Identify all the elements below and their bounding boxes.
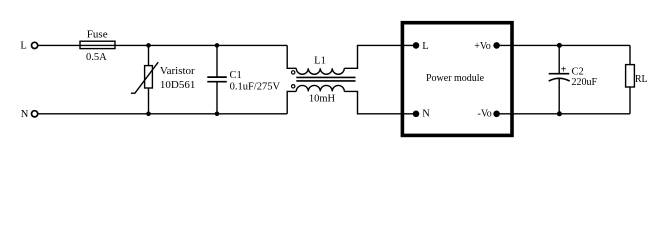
svg-text:0.5A: 0.5A (86, 52, 107, 63)
wire L rail step down into choke (287, 45, 296, 68)
svg-text:10mH: 10mH (309, 94, 336, 105)
varistor RV branch wire top (148, 45, 150, 65)
svg-text:L: L (422, 41, 428, 52)
svg-text:10D561: 10D561 (160, 79, 195, 91)
junction dot N rail C1 (215, 112, 220, 117)
svg-text:N: N (21, 109, 29, 120)
power module box U1 (402, 23, 512, 136)
junction dot +Vo rail C2 (557, 43, 562, 48)
svg-text:Power module: Power module (426, 73, 485, 84)
svg-text:N: N (422, 109, 430, 120)
fuse Fuse 0.5A (80, 41, 115, 48)
junction dot L rail varistor (146, 43, 151, 48)
pin dot L input of module (413, 42, 420, 49)
load resistor RL body (626, 65, 635, 87)
svg-text:-Vo: -Vo (478, 108, 492, 119)
wire N rail (38, 113, 287, 115)
capacitor C2 branch wire top (558, 45, 560, 73)
svg-text:RL: RL (635, 74, 648, 85)
svg-text:220uF: 220uF (572, 77, 598, 88)
inductor L1 top winding arcs (296, 68, 344, 74)
svg-text:+: + (561, 65, 567, 76)
svg-text:C1: C1 (230, 70, 242, 81)
wire +Vo output rail (497, 44, 630, 46)
wire N rail step up into choke (287, 91, 296, 113)
capacitor C2 branch wire bottom (558, 79, 560, 114)
pin dot -Vo output of module (493, 111, 500, 118)
svg-text:Fuse: Fuse (87, 29, 108, 41)
varistor RV body (145, 66, 153, 88)
wire fuse to choke step (115, 44, 287, 46)
inductor L1 bottom winding phase dot (292, 85, 295, 88)
capacitor C1 plates (207, 76, 227, 78)
wire L terminal to fuse (38, 44, 80, 46)
inductor L1 bottom winding arcs (296, 85, 344, 91)
junction dot L rail C1 (215, 43, 220, 48)
svg-text:C2: C2 (572, 66, 584, 77)
load resistor RL branch wire bottom (629, 87, 631, 114)
capacitor C1 branch wire bottom (216, 82, 218, 114)
junction dot N rail varistor (146, 112, 151, 117)
inductor L1 core lines (296, 76, 355, 78)
terminal L (31, 42, 37, 48)
wire choke bottom out to power module (344, 91, 416, 113)
svg-text:+Vo: +Vo (474, 41, 491, 52)
svg-text:Varistor: Varistor (160, 65, 195, 77)
svg-text:L: L (20, 40, 26, 51)
terminal N (31, 111, 37, 117)
svg-text:0.1uF/275V: 0.1uF/275V (230, 81, 281, 92)
varistor diagonal arrow (131, 62, 158, 93)
wire choke top out to power module (344, 45, 416, 68)
junction dot -Vo rail C2 (557, 111, 562, 116)
svg-text:L1: L1 (314, 55, 326, 66)
inductor L1 top winding phase dot (292, 71, 295, 74)
capacitor C2 top plate (549, 73, 570, 75)
varistor branch wire bottom (148, 88, 150, 114)
capacitor C1 branch wire top (216, 45, 218, 77)
load resistor RL branch wire top (629, 45, 631, 64)
capacitor C2 curved bottom plate (549, 78, 570, 81)
wire -Vo output rail (497, 113, 630, 115)
pin dot N input of module (413, 111, 420, 118)
pin dot +Vo output of module (493, 42, 500, 49)
